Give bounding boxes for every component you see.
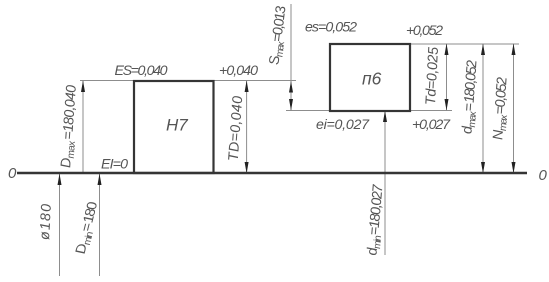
svg-text:0: 0 bbox=[539, 167, 548, 184]
svg-text:Smax =0,013: Smax =0,013 bbox=[266, 6, 291, 65]
svg-text:+0,027: +0,027 bbox=[412, 117, 451, 133]
svg-text:H7: H7 bbox=[166, 116, 188, 135]
svg-text:ES=0,040: ES=0,040 bbox=[115, 63, 168, 79]
svg-text:Dmin = 180: Dmin = 180 bbox=[73, 202, 104, 254]
svg-text:п6: п6 bbox=[362, 69, 382, 89]
svg-text:dmax = 180,052: dmax = 180,052 bbox=[459, 60, 482, 134]
svg-text:ei=0,027: ei=0,027 bbox=[316, 117, 370, 133]
svg-text:+0,040: +0,040 bbox=[219, 63, 258, 79]
svg-text:EI=0: EI=0 bbox=[101, 157, 128, 173]
svg-text:ø180: ø180 bbox=[37, 204, 55, 240]
svg-text:Nmax =0,052: Nmax =0,052 bbox=[490, 77, 512, 140]
svg-text:+0,052: +0,052 bbox=[406, 23, 443, 39]
svg-text:TD=0,040: TD=0,040 bbox=[226, 96, 247, 161]
svg-text:Dmax =180,040: Dmax =180,040 bbox=[58, 85, 82, 168]
svg-text:0: 0 bbox=[8, 165, 17, 182]
svg-text:es=0,052: es=0,052 bbox=[305, 20, 357, 36]
svg-text:Td=0,025: Td=0,025 bbox=[423, 47, 442, 105]
